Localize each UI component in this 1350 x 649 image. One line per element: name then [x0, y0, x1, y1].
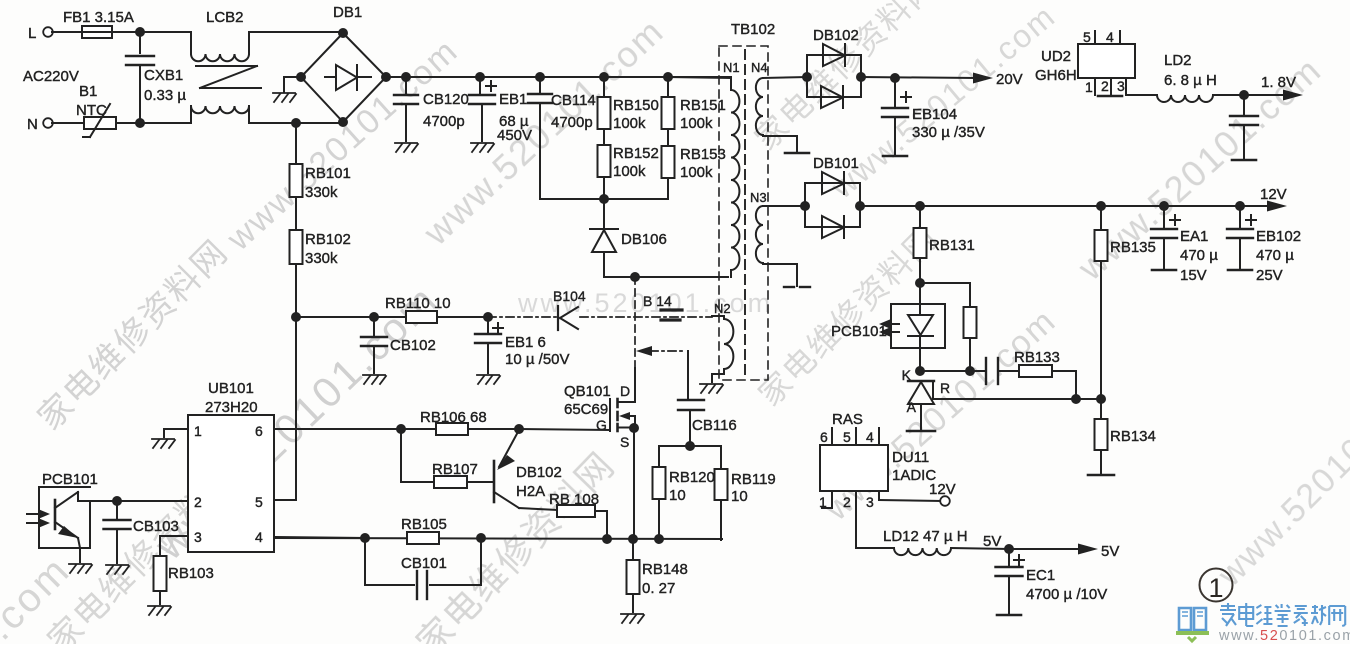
junction N node — [135, 118, 145, 128]
svg-text:L: L — [28, 25, 36, 42]
resistor RB105 — [407, 532, 439, 544]
wire clamp dash line — [636, 346, 652, 356]
svg-text:RB135: RB135 — [1110, 239, 1156, 256]
svg-text:LCB2: LCB2 — [206, 9, 244, 26]
svg-text:470 µ: 470 µ — [1256, 247, 1294, 264]
svg-text:RB119: RB119 — [731, 471, 776, 488]
junction DB106 top — [599, 194, 609, 204]
svg-text:3: 3 — [194, 529, 202, 545]
svg-text:N4: N4 — [751, 60, 768, 75]
wire HV bus — [386, 76, 731, 78]
resistor RB132 — [964, 307, 977, 338]
terminal bar UD2 gnd — [1098, 95, 1122, 98]
wire reference line — [933, 398, 1101, 400]
diode DB106 — [603, 199, 605, 229]
resistor RB148 0.27 — [632, 539, 634, 560]
junction CB103 node — [112, 496, 122, 506]
svg-text:NTC: NTC — [76, 102, 107, 119]
junction bus nodes — [401, 72, 411, 82]
arrow 1.8V output — [1244, 94, 1284, 96]
svg-text:EA1: EA1 — [1180, 228, 1208, 245]
svg-text:330k: 330k — [305, 184, 338, 201]
resistor RB134 — [1100, 399, 1102, 419]
wire RB107 branch — [400, 429, 402, 482]
capacitor CB114 4700p — [539, 77, 541, 92]
wire source — [633, 428, 635, 539]
wire RB135 branch — [1100, 206, 1102, 230]
junction Vcc nodes — [291, 312, 301, 322]
svg-text:RB110 10: RB110 10 — [385, 295, 451, 312]
wire 20V line — [861, 77, 976, 78]
wire snubber R top — [659, 445, 721, 447]
wire NTC to node — [116, 122, 191, 124]
svg-text:UB101: UB101 — [208, 380, 254, 397]
svg-text:470 µ: 470 µ — [1180, 247, 1218, 264]
svg-text:1: 1 — [1085, 79, 1093, 95]
ground CB102 — [363, 375, 386, 384]
junction CB116 bottom — [685, 441, 695, 451]
svg-text:R: R — [940, 380, 950, 396]
wire RB133 to ref — [1052, 370, 1076, 372]
terminal bar EA1 — [1152, 269, 1176, 272]
svg-text:15V: 15V — [1180, 267, 1207, 284]
junction RB101 tap — [291, 118, 301, 128]
svg-text:DB102: DB102 — [516, 464, 562, 481]
svg-text:B1: B1 — [79, 83, 97, 100]
svg-text:4: 4 — [255, 529, 263, 545]
resistor RB133 — [1019, 365, 1052, 377]
svg-text:EB104: EB104 — [912, 106, 957, 123]
svg-text:RB134: RB134 — [1110, 428, 1156, 445]
junction node K — [915, 366, 925, 376]
thermistor B1 NTC — [84, 117, 116, 129]
svg-text:A: A — [907, 399, 917, 415]
resistor RB150 100k — [603, 77, 605, 97]
wire fuse to node — [112, 31, 191, 33]
ground pin1 — [163, 429, 165, 437]
svg-text:N1: N1 — [723, 60, 740, 75]
svg-text:5V: 5V — [983, 533, 1001, 550]
ground RB103 — [148, 606, 171, 615]
svg-text:1. 8V: 1. 8V — [1261, 74, 1296, 91]
ground EB1 — [471, 143, 494, 152]
terminal bar EB102 — [1228, 269, 1252, 272]
svg-text:10: 10 — [731, 488, 748, 505]
junction EB104 — [890, 73, 900, 83]
svg-text:TB102: TB102 — [731, 21, 775, 38]
svg-text:LD12 47 µ H: LD12 47 µ H — [883, 528, 968, 545]
capacitor EB106 10u 50V — [487, 317, 489, 332]
svg-text:0.33 µ: 0.33 µ — [144, 87, 186, 104]
junction 5V node — [1004, 544, 1014, 554]
light arrows — [38, 509, 50, 519]
svg-text:RB102: RB102 — [305, 231, 351, 248]
capacitor 1.8V filter — [1243, 95, 1245, 114]
svg-text:5: 5 — [255, 494, 263, 510]
choke LCB2 core — [196, 65, 257, 67]
wire snubber dash line — [488, 316, 556, 318]
wire clamp to CB116 — [687, 351, 689, 398]
svg-text:RB 108: RB 108 — [549, 491, 599, 508]
transformer core — [744, 50, 746, 378]
capacitor feedback series — [985, 358, 987, 384]
wire L to fuse — [52, 31, 82, 33]
svg-text:EB102: EB102 — [1256, 228, 1301, 245]
svg-text:4: 4 — [1106, 29, 1114, 45]
resistor RB131 — [919, 206, 921, 228]
wire K line — [920, 370, 985, 372]
svg-text:S: S — [620, 434, 629, 450]
svg-text:RB103: RB103 — [168, 565, 214, 582]
svg-text:UD2: UD2 — [1041, 48, 1071, 65]
svg-text:3: 3 — [1117, 78, 1125, 94]
svg-text:GH6H: GH6H — [1035, 67, 1077, 84]
svg-text:12V: 12V — [929, 481, 956, 498]
svg-text:RB150: RB150 — [613, 97, 659, 114]
terminal bar 1.8V cap — [1232, 159, 1256, 162]
capacitor EB102 470u 25V — [1239, 206, 1241, 227]
svg-text:DB101: DB101 — [813, 155, 859, 172]
junction feedback top — [915, 278, 925, 288]
svg-text:12V: 12V — [1260, 186, 1287, 203]
svg-text:B 14: B 14 — [643, 293, 672, 309]
svg-text:AC220V: AC220V — [23, 68, 79, 85]
capacitor CB116 — [678, 399, 704, 401]
resistor RB119 10 — [720, 446, 722, 469]
wire gate — [519, 429, 610, 430]
node 12V terminal — [940, 496, 950, 506]
arrow 5V output — [1009, 548, 1082, 550]
capacitor EB104 330u 35V — [894, 78, 896, 106]
svg-text:N: N — [27, 116, 38, 133]
terminal bar regulator anode — [907, 430, 935, 433]
wire to RB132 — [920, 282, 970, 284]
svg-text:4: 4 — [866, 429, 874, 445]
capacitor EB1 68u 450V — [479, 77, 481, 93]
svg-text:RB152: RB152 — [613, 145, 659, 162]
svg-text:RB131: RB131 — [929, 237, 975, 254]
svg-text:330 µ /35V: 330 µ /35V — [912, 124, 985, 141]
ground opto emitter — [69, 564, 92, 573]
ground CB103 — [106, 565, 129, 574]
wire choke top to bridge — [249, 31, 344, 33]
svg-text:10 µ /50V: 10 µ /50V — [505, 351, 570, 368]
svg-text:B104: B104 — [553, 288, 586, 304]
svg-text:2: 2 — [843, 494, 851, 510]
pin R — [932, 383, 934, 399]
wire snubber drop dashed — [634, 277, 636, 368]
svg-text:6: 6 — [255, 423, 263, 439]
capacitor CB120 4700p — [405, 77, 407, 93]
svg-text:CB103: CB103 — [133, 518, 179, 535]
junction LD2 out — [1239, 90, 1249, 100]
junction gate node — [514, 424, 524, 434]
svg-text:RB101: RB101 — [305, 165, 351, 182]
svg-text:DB1: DB1 — [333, 4, 362, 21]
wire DB106 to N1 return — [604, 276, 728, 278]
wire snubber dash mid — [580, 316, 712, 318]
svg-text:100k: 100k — [613, 163, 646, 180]
svg-text:DU11: DU11 — [892, 449, 929, 466]
svg-text:RB148: RB148 — [642, 561, 688, 578]
terminal bar RB134 — [1088, 474, 1114, 477]
svg-text:N3: N3 — [750, 190, 767, 205]
svg-text:CB102: CB102 — [390, 337, 436, 354]
junction bottom rail nodes — [360, 533, 370, 543]
resistor RB153 100k — [662, 146, 675, 178]
svg-text:65C69: 65C69 — [564, 401, 608, 418]
svg-text:CB101: CB101 — [401, 555, 447, 572]
ground RB148 — [621, 614, 644, 623]
svg-text:4700p: 4700p — [551, 114, 593, 131]
svg-text:RB120: RB120 — [669, 469, 715, 486]
wire choke bottom to bridge — [249, 122, 343, 124]
capacitor CB101 — [364, 538, 366, 585]
svg-text:0. 27: 0. 27 — [642, 580, 675, 597]
shunt regulator DU11 error amp — [908, 380, 934, 382]
choke LCB2 bottom winding — [190, 106, 192, 123]
wire Vcc line — [296, 316, 488, 318]
arrow 12V output — [1267, 201, 1287, 212]
wire collector to RB108 — [519, 508, 557, 510]
ground EB106 — [477, 375, 500, 384]
capacitor CB103 — [116, 501, 118, 518]
svg-text:100k: 100k — [680, 115, 713, 132]
svg-text:www.520101.com: www.520101.com — [1218, 628, 1350, 644]
svg-text:5V: 5V — [1101, 543, 1119, 560]
junction R nodes — [1071, 394, 1081, 404]
junction RB106 left — [396, 424, 406, 434]
svg-text:4700p: 4700p — [423, 113, 465, 130]
wire Vcc to pin5 — [295, 317, 297, 500]
wire N to NTC — [52, 122, 84, 124]
svg-text:RB107: RB107 — [432, 461, 478, 478]
terminal bar EC1 — [997, 614, 1021, 617]
wire pin3 to 12V — [879, 500, 941, 501]
wire bottom rail — [274, 538, 722, 539]
ground CB120 — [395, 143, 418, 152]
svg-text:RAS: RAS — [832, 411, 863, 428]
svg-text:PCB101: PCB101 — [42, 471, 98, 488]
svg-text:CB116: CB116 — [692, 417, 737, 434]
svg-text:6: 6 — [820, 429, 828, 445]
logo text — [1220, 603, 1345, 626]
wire N3 return — [763, 263, 797, 265]
resistor RB135 — [1095, 230, 1108, 261]
page number 1 circled — [1200, 569, 1233, 602]
node N terminal — [43, 118, 53, 128]
wire startup join — [540, 198, 668, 200]
resistor RB120 10 — [658, 446, 660, 467]
svg-text:450V: 450V — [497, 127, 532, 144]
svg-text:DB106: DB106 — [621, 231, 667, 248]
junction 12V nodes — [915, 201, 925, 211]
svg-text:LD2: LD2 — [1164, 52, 1192, 69]
wire pin2 to LD12 — [855, 510, 857, 548]
svg-text:5: 5 — [843, 429, 851, 445]
svg-text:2: 2 — [194, 494, 202, 510]
junction RB132 bottom — [965, 366, 975, 376]
svg-text:EC1: EC1 — [1026, 567, 1055, 584]
svg-text:3: 3 — [866, 494, 874, 510]
svg-text:2: 2 — [1101, 78, 1109, 94]
light arrows LED — [883, 323, 899, 325]
resistor RB107 — [401, 481, 434, 483]
svg-text:FB1 3.15A: FB1 3.15A — [63, 9, 134, 26]
terminal N3 return — [784, 286, 794, 288]
svg-text:RB133: RB133 — [1014, 349, 1060, 366]
svg-text:CB114: CB114 — [551, 92, 596, 109]
logo book icon — [1179, 608, 1206, 630]
svg-text:CB120: CB120 — [423, 91, 469, 108]
svg-text:RB105: RB105 — [401, 516, 447, 533]
capacitor CB102 — [373, 317, 375, 335]
svg-text:1: 1 — [1208, 573, 1223, 603]
resistor RB151 100k — [667, 77, 669, 97]
ground at bridge AC input — [284, 76, 301, 78]
resistor RB103 — [159, 536, 161, 556]
arrow 20V output — [973, 73, 993, 84]
svg-text:D: D — [620, 383, 630, 399]
svg-text:20V: 20V — [996, 71, 1023, 88]
svg-text:10: 10 — [669, 487, 686, 504]
svg-text:PCB101: PCB101 — [831, 323, 887, 340]
resistor RB110 10 — [406, 311, 437, 323]
svg-text:5: 5 — [1083, 29, 1091, 45]
node L terminal — [43, 27, 53, 37]
resistor RB101 330k — [295, 123, 297, 164]
resistor RB102 330k — [290, 230, 303, 264]
junction snubber tap — [630, 272, 640, 282]
wire N2 return — [723, 371, 725, 374]
junction L node — [135, 27, 145, 37]
ground N2 — [700, 384, 723, 393]
svg-text:DB102: DB102 — [813, 27, 859, 44]
capacitor EC1 4700u 10V — [1008, 549, 1010, 565]
svg-text:EB1: EB1 — [499, 91, 527, 108]
svg-text:H2A: H2A — [516, 483, 545, 500]
resistor RB152 100k — [598, 145, 611, 177]
svg-text:QB101: QB101 — [564, 383, 611, 400]
svg-text:6. 8 µ H: 6. 8 µ H — [1164, 72, 1217, 89]
svg-text:100k: 100k — [680, 164, 713, 181]
svg-text:25V: 25V — [1256, 267, 1283, 284]
terminal bar EB104 — [883, 155, 907, 158]
wire 12V rail — [860, 205, 1270, 207]
resistor RB108 — [557, 505, 595, 517]
svg-text:EB1 6: EB1 6 — [505, 334, 546, 351]
svg-text:1: 1 — [194, 423, 202, 439]
terminal bar N4 — [785, 152, 809, 155]
svg-text:100k: 100k — [613, 115, 646, 132]
svg-text:CXB1: CXB1 — [144, 67, 183, 84]
svg-text:4700 µ /10V: 4700 µ /10V — [1026, 586, 1107, 603]
wire N4 return — [763, 135, 797, 137]
resistor RB106 68 — [401, 428, 436, 430]
svg-text:RB106 68: RB106 68 — [420, 409, 487, 426]
capacitor CXB1 0.33u — [139, 32, 141, 53]
svg-text:N2: N2 — [714, 301, 731, 316]
capacitor EA1 470u 15V — [1163, 206, 1165, 227]
fuse FB1 3.15A — [82, 26, 112, 38]
svg-text:273H20: 273H20 — [205, 399, 258, 416]
svg-text:330k: 330k — [305, 250, 338, 267]
